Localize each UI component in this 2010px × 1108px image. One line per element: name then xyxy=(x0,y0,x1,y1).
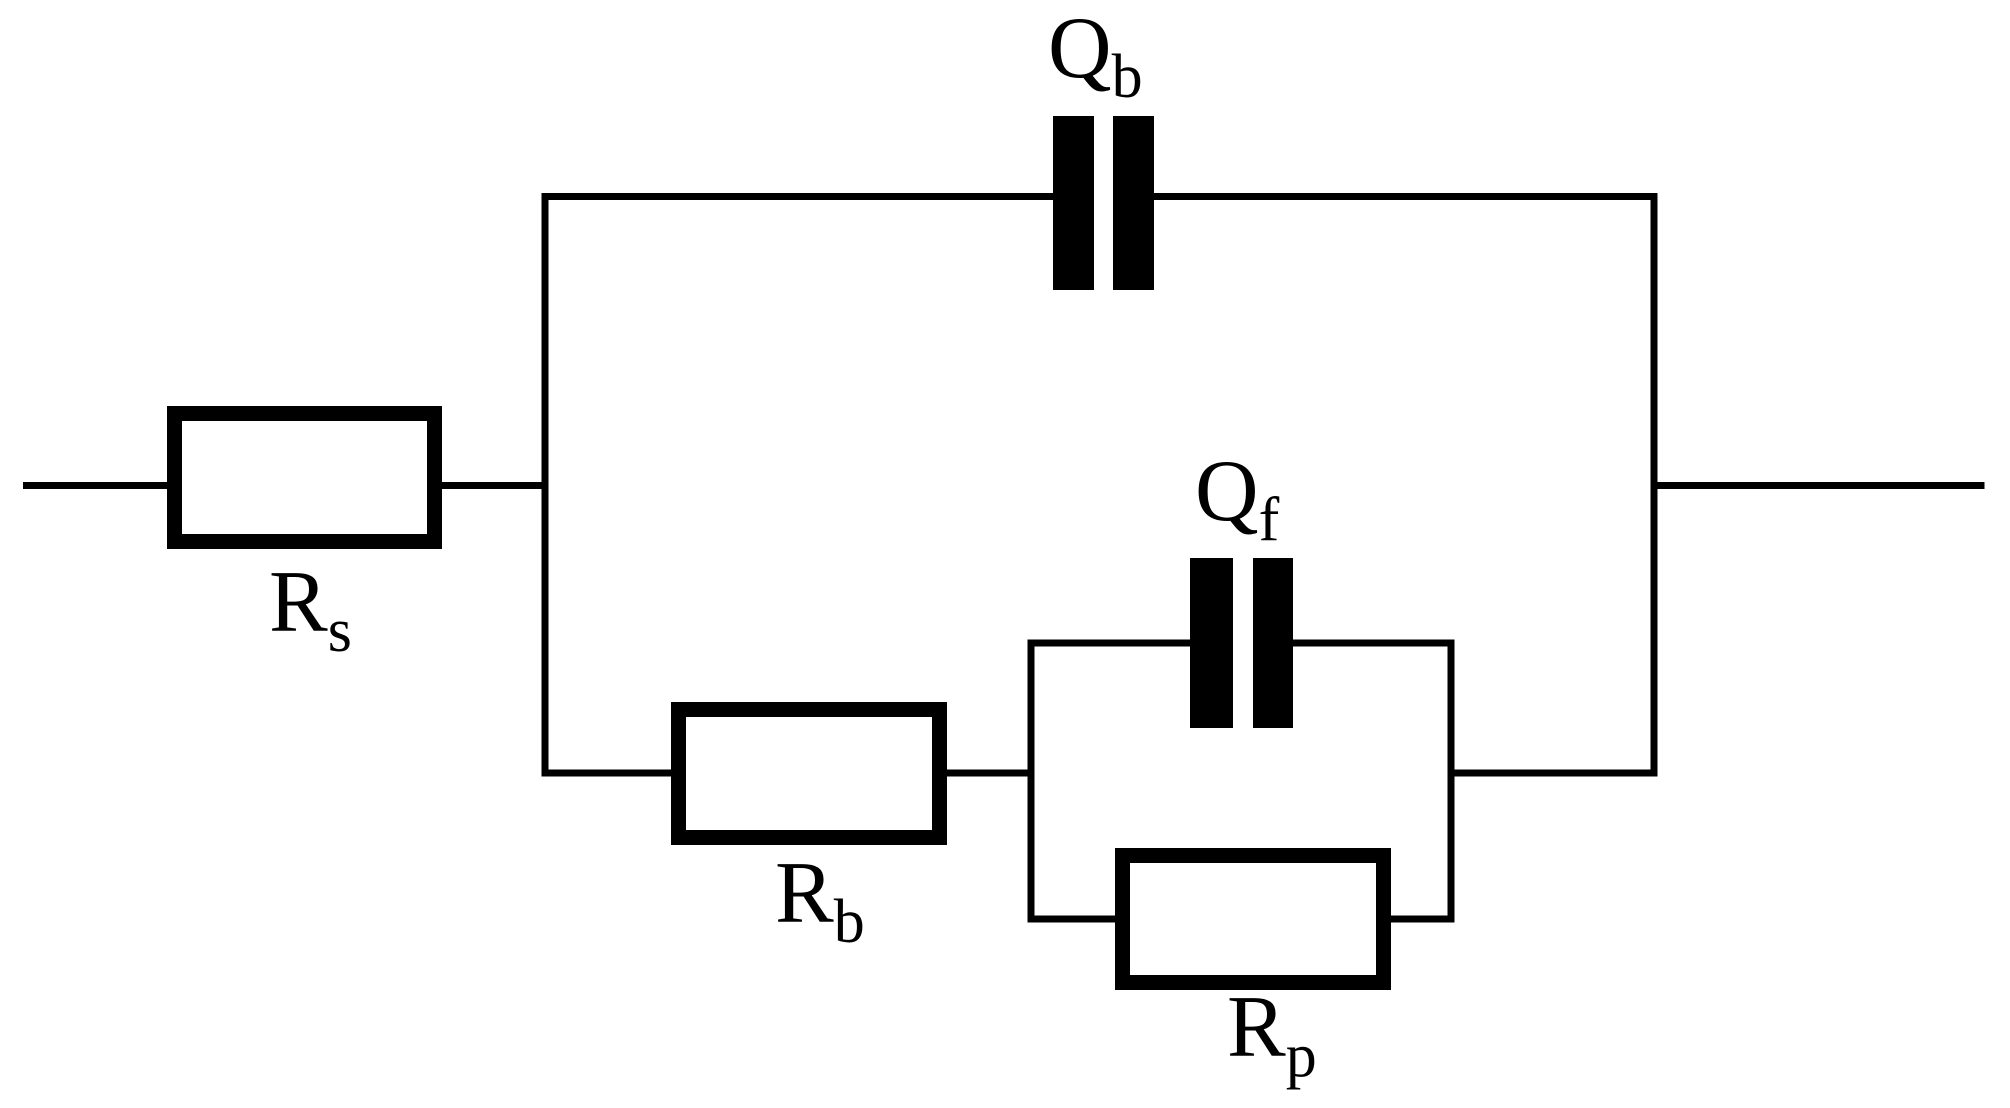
wire: output lead right xyxy=(1651,482,1985,489)
wire: inner top branch right segment xyxy=(1289,640,1455,647)
wire: bottom branch to R_b xyxy=(542,770,676,777)
wire: left branch vertical xyxy=(542,193,549,777)
wire: inner top branch left segment xyxy=(1028,640,1195,647)
capacitor Q_f xyxy=(1190,558,1293,728)
resistor R_p xyxy=(1123,856,1384,983)
resistor R_s xyxy=(175,414,435,542)
wire: top branch right segment xyxy=(1150,193,1658,200)
wire: R_s to left junction xyxy=(437,482,549,489)
wire: right branch vertical xyxy=(1651,193,1658,777)
wire: R_b to inner parallel box xyxy=(943,770,1035,777)
wire: inner bottom branch right segment xyxy=(1387,916,1455,923)
capacitor Q_b xyxy=(1053,116,1154,290)
wire: inner box left vertical xyxy=(1028,640,1035,923)
wire: inner bottom branch left segment xyxy=(1028,916,1120,923)
resistor R_b xyxy=(679,710,940,838)
wire: inner box right vertical xyxy=(1448,640,1455,923)
wire: top branch left segment xyxy=(542,193,1058,200)
wire: inner box to right branch xyxy=(1448,770,1658,777)
wire: input lead left xyxy=(23,482,172,489)
